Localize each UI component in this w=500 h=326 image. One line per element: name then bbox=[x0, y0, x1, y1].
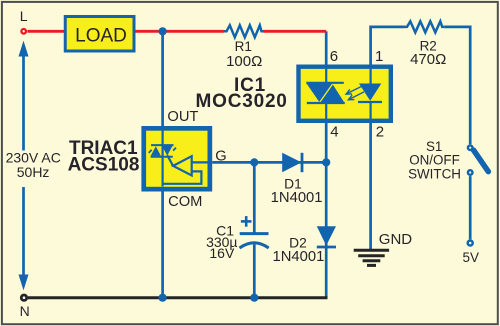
svg-text:OUT: OUT bbox=[167, 109, 198, 125]
svg-text:COM: COM bbox=[168, 194, 202, 210]
svg-text:N: N bbox=[20, 303, 30, 319]
svg-text:R1: R1 bbox=[235, 39, 252, 54]
svg-text:LOAD: LOAD bbox=[75, 25, 127, 46]
svg-text:50Hz: 50Hz bbox=[17, 164, 50, 180]
svg-text:6: 6 bbox=[330, 48, 338, 65]
svg-text:ACS108: ACS108 bbox=[68, 154, 140, 175]
svg-text:G: G bbox=[215, 148, 226, 164]
svg-text:2: 2 bbox=[376, 124, 384, 141]
svg-text:SWITCH: SWITCH bbox=[408, 166, 461, 181]
svg-text:1N4001: 1N4001 bbox=[271, 190, 323, 206]
svg-text:1: 1 bbox=[375, 48, 383, 65]
svg-text:16V: 16V bbox=[209, 245, 235, 261]
svg-text:MOC3020: MOC3020 bbox=[195, 91, 287, 112]
svg-text:4: 4 bbox=[330, 124, 338, 141]
svg-text:5V: 5V bbox=[463, 250, 480, 265]
svg-text:L: L bbox=[20, 8, 28, 24]
svg-text:1N4001: 1N4001 bbox=[272, 249, 324, 265]
svg-text:100Ω: 100Ω bbox=[226, 53, 262, 70]
svg-text:GND: GND bbox=[379, 231, 413, 248]
svg-text:470Ω: 470Ω bbox=[410, 51, 446, 68]
